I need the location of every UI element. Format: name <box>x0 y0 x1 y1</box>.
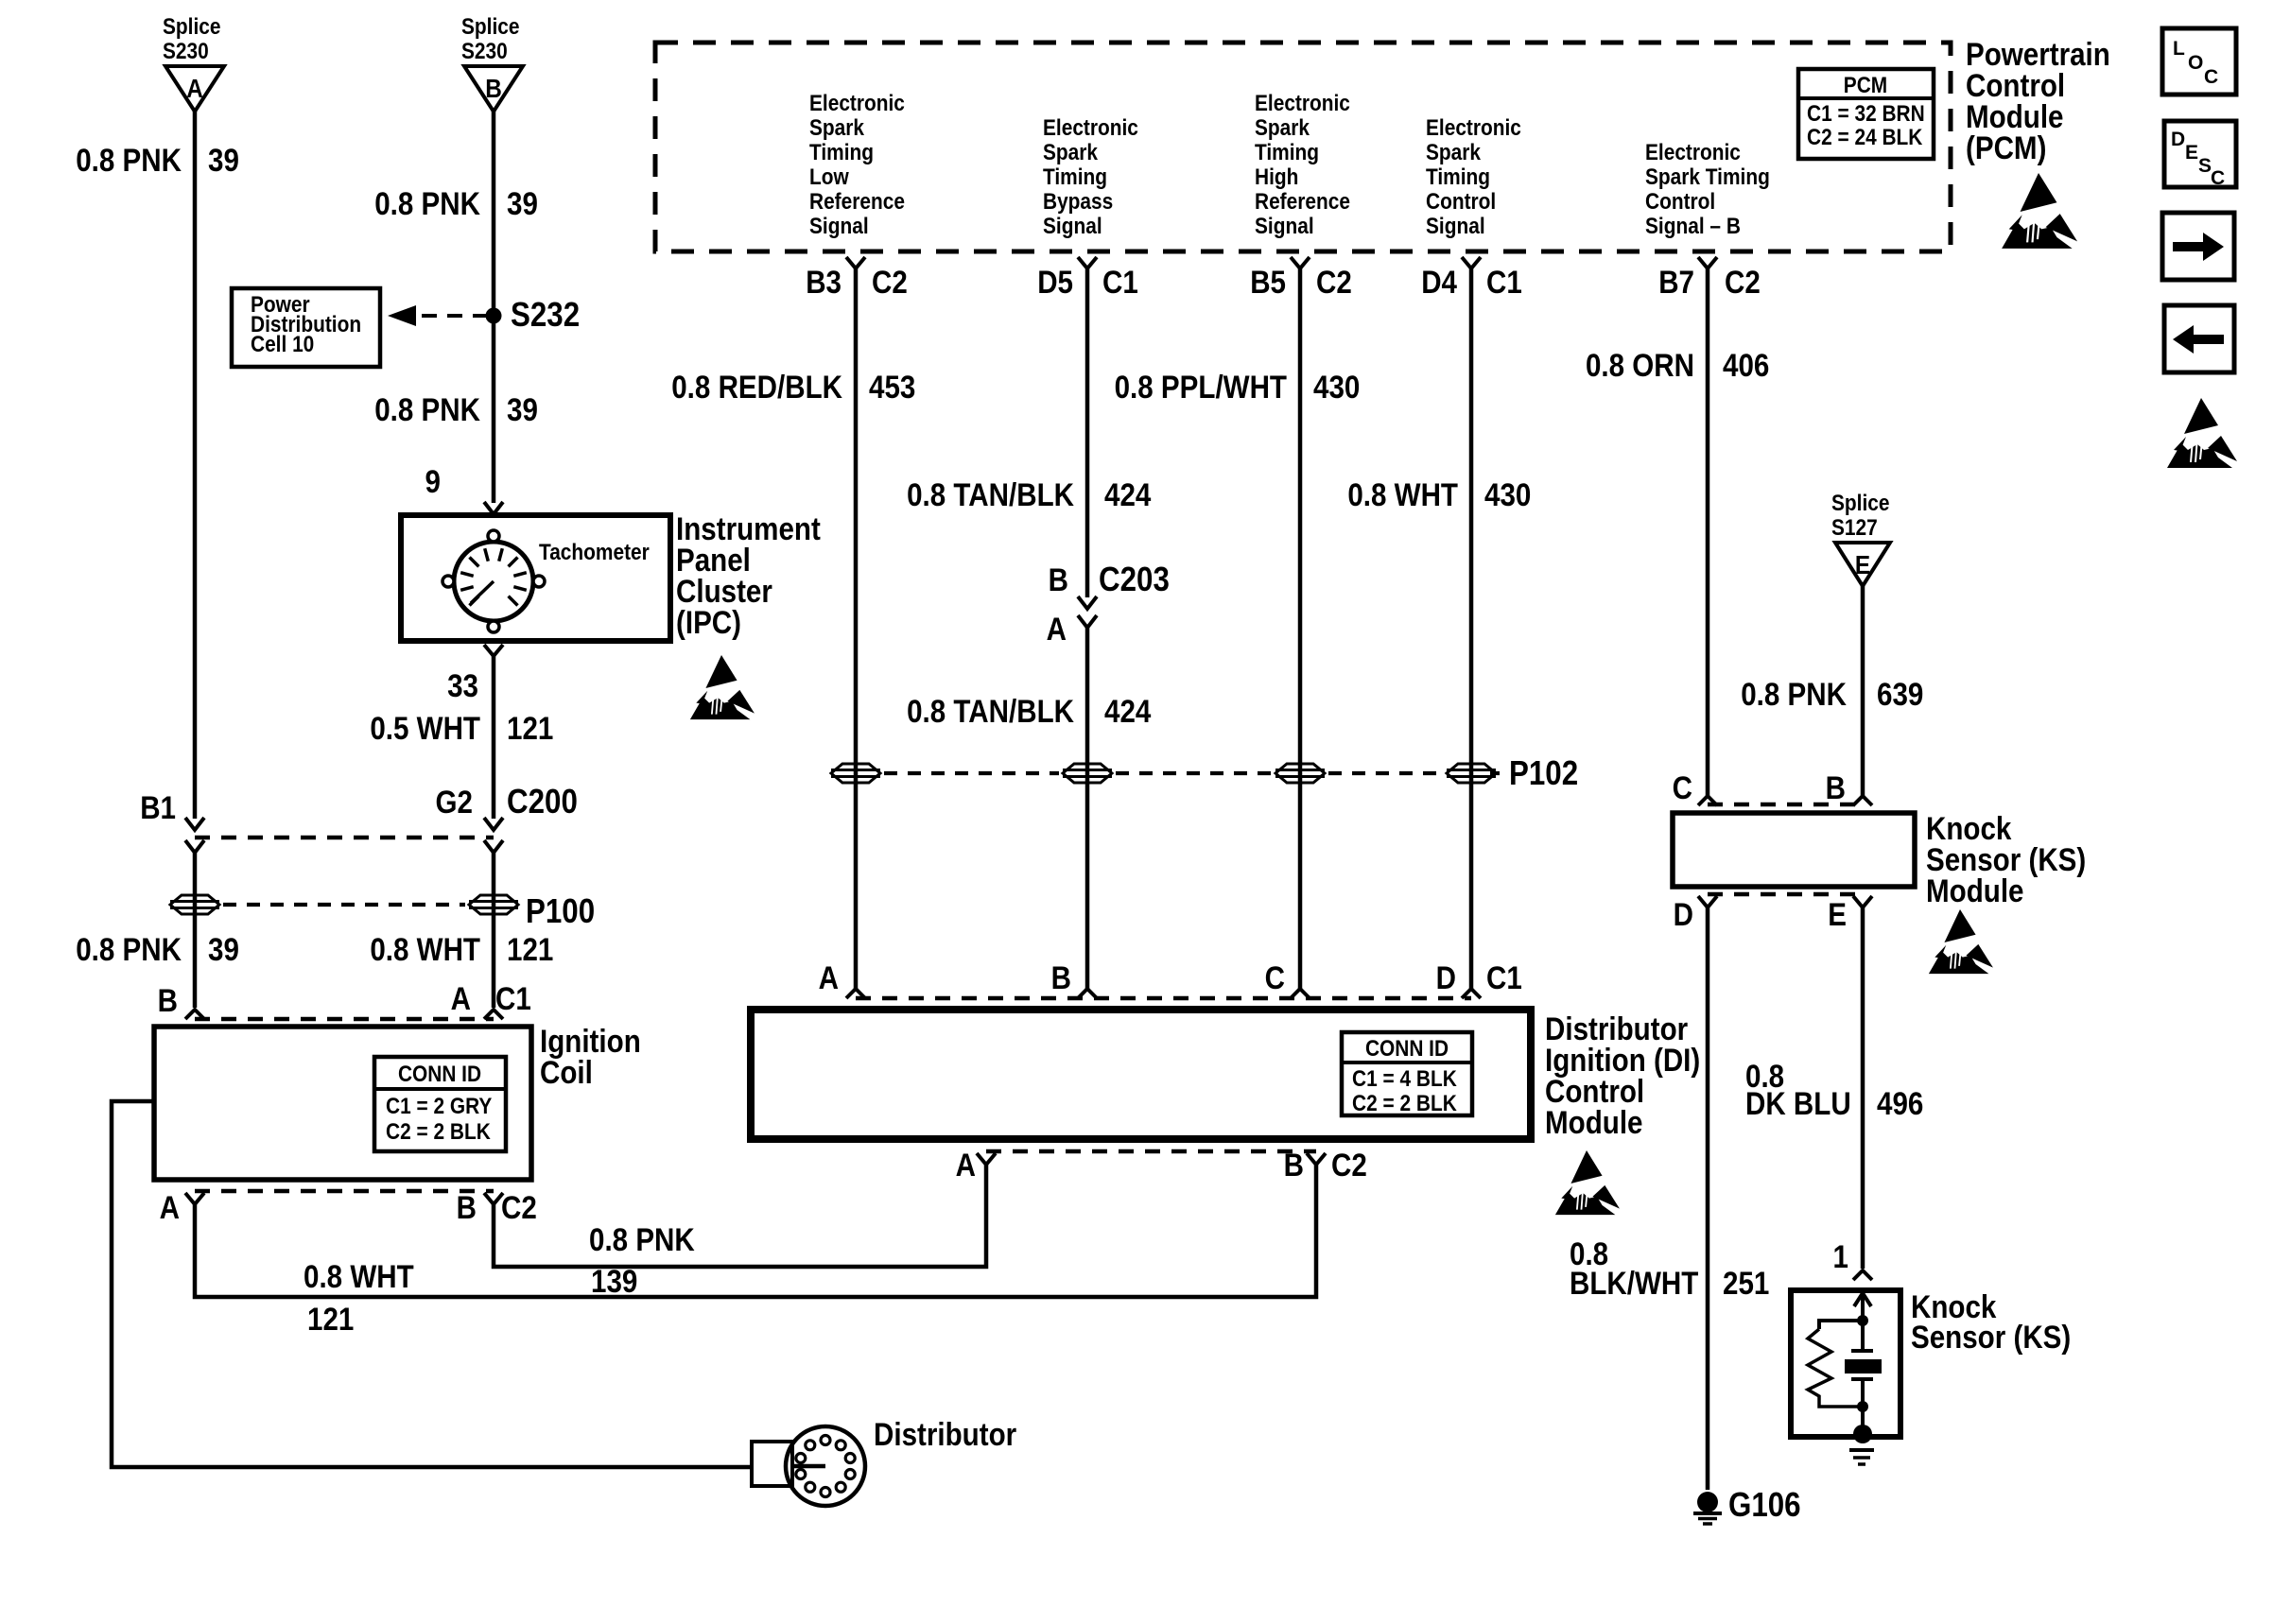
svg-text:PCM: PCM <box>1844 73 1887 98</box>
svg-text:0.8 PNK: 0.8 PNK <box>374 391 480 427</box>
KS module connector bottom dashed line <box>1708 892 1863 897</box>
svg-text:E: E <box>2185 142 2198 164</box>
svg-text:Control: Control <box>1426 189 1496 215</box>
svg-text:A: A <box>160 1189 180 1225</box>
pass-through connector P100 (right) <box>469 895 518 914</box>
svg-text:639: 639 <box>1877 676 1923 712</box>
svg-text:496: 496 <box>1877 1085 1923 1121</box>
previous-page arrow box <box>2164 305 2234 372</box>
svg-text:Distributor: Distributor <box>874 1416 1016 1452</box>
svg-text:39: 39 <box>208 931 239 967</box>
wire 0.8 DK BLU 496 to knock sensor <box>1861 907 1865 1269</box>
svg-text:Reference: Reference <box>809 189 905 215</box>
svg-text:C1: C1 <box>1102 264 1138 300</box>
pass-through connector P102 on wire D <box>1447 764 1496 783</box>
svg-text:0.5 WHT: 0.5 WHT <box>370 710 480 746</box>
svg-text:S232: S232 <box>511 296 580 335</box>
wire 0.8 WHT 121 below C200 <box>492 853 496 1008</box>
svg-text:C1 = 32 BRN: C1 = 32 BRN <box>1807 101 1925 127</box>
svg-text:Spark: Spark <box>1043 140 1098 165</box>
wire feet into coil connector C1 <box>185 1010 204 1019</box>
svg-text:0.8 PNK: 0.8 PNK <box>1741 676 1847 712</box>
wire 0.8 TAN/BLK 424 (EST bypass) upper <box>1085 268 1090 597</box>
svg-text:C2: C2 <box>501 1189 537 1225</box>
tachometer gauge symbol <box>454 542 533 621</box>
svg-text:Timing: Timing <box>1255 140 1319 165</box>
svg-text:Spark: Spark <box>1426 140 1481 165</box>
IPC pin 33 stub <box>484 645 503 656</box>
DESC reference box <box>2164 121 2236 187</box>
svg-text:424: 424 <box>1104 693 1152 729</box>
svg-text:Splice: Splice <box>461 14 519 40</box>
svg-text:0.8 WHT: 0.8 WHT <box>370 931 480 967</box>
svg-text:P102: P102 <box>1509 754 1578 793</box>
svg-text:1: 1 <box>1833 1238 1848 1274</box>
svg-text:Splice: Splice <box>1831 491 1889 516</box>
svg-text:Coil: Coil <box>540 1054 593 1090</box>
svg-text:430: 430 <box>1484 476 1531 512</box>
svg-text:Tachometer: Tachometer <box>539 540 650 565</box>
svg-text:39: 39 <box>507 391 538 427</box>
svg-text:453: 453 <box>869 369 915 405</box>
arrowhead into IPC pin 9 <box>484 502 503 514</box>
pass-through connector P100 (left) <box>170 895 219 914</box>
KS module connector top dashed line <box>1708 803 1863 807</box>
secondary wire from coil to distributor <box>112 1101 752 1467</box>
svg-text:0.8 TAN/BLK: 0.8 TAN/BLK <box>907 476 1074 512</box>
DI module CONN ID table <box>1342 1032 1472 1115</box>
splice S127 branch E triangle <box>1835 543 1890 586</box>
svg-text:D: D <box>1436 959 1456 995</box>
svg-text:S127: S127 <box>1831 515 1878 541</box>
svg-text:S230: S230 <box>163 39 209 64</box>
ESD sensitivity symbol near DI module <box>1555 1150 1620 1215</box>
svg-text:Electronic: Electronic <box>1645 140 1741 165</box>
svg-text:Module: Module <box>1545 1104 1642 1140</box>
wire 0.8 PNK 139 coil B to DI module A <box>494 1165 986 1267</box>
pass-through connector P102 on wire C <box>1275 764 1325 783</box>
svg-text:33: 33 <box>447 667 478 703</box>
splice point S232 dot <box>486 308 502 324</box>
svg-text:B: B <box>158 982 178 1018</box>
svg-text:B: B <box>1284 1147 1304 1183</box>
splice S230 branch A triangle <box>165 66 224 112</box>
PCM pin stubs leaving module <box>846 257 865 268</box>
ESD sensitivity symbol near KS module <box>1929 909 1993 974</box>
PCM module dashed outline <box>655 43 1951 251</box>
pass-through connector P102 on wire A <box>831 764 880 783</box>
svg-text:0.8 PNK: 0.8 PNK <box>76 142 182 178</box>
svg-text:C2 = 2 BLK: C2 = 2 BLK <box>386 1119 491 1145</box>
svg-text:Cell 10: Cell 10 <box>251 332 314 357</box>
svg-text:Sensor (KS): Sensor (KS) <box>1911 1319 2071 1355</box>
svg-text:0.8 PNK: 0.8 PNK <box>374 185 480 221</box>
arrowheads into connector C200 <box>185 818 204 830</box>
wire 0.8 PNK 639 splice E to KS module B <box>1861 586 1865 796</box>
Distributor Ignition Control Module box <box>751 1010 1531 1139</box>
svg-text:E: E <box>1828 896 1847 932</box>
svg-text:C: C <box>1265 959 1285 995</box>
svg-text:Reference: Reference <box>1255 189 1350 215</box>
svg-text:B3: B3 <box>806 264 842 300</box>
next-page arrow box <box>2162 213 2234 280</box>
svg-text:139: 139 <box>591 1263 637 1299</box>
svg-text:Electronic: Electronic <box>1255 91 1350 116</box>
svg-text:C2: C2 <box>1316 264 1352 300</box>
svg-text:Signal: Signal <box>1426 214 1485 239</box>
wire 0.8 BLK/WHT 251 to ground G106 <box>1706 907 1710 1490</box>
svg-text:Spark Timing: Spark Timing <box>1645 164 1770 190</box>
wire 0.8 WHT 121 coil A to DI module B <box>195 1165 1316 1297</box>
svg-text:A: A <box>819 959 839 995</box>
ignition coil connector C1 dashed line <box>195 1017 494 1022</box>
svg-text:C: C <box>1673 769 1692 805</box>
svg-text:C2 = 24 BLK: C2 = 24 BLK <box>1807 125 1923 150</box>
wire 0.8 PNK 39 below C200 <box>193 853 198 1008</box>
svg-text:0.8 TAN/BLK: 0.8 TAN/BLK <box>907 693 1074 729</box>
svg-text:Signal: Signal <box>1043 214 1102 239</box>
Knock Sensor Module box <box>1673 813 1915 887</box>
svg-text:S230: S230 <box>461 39 508 64</box>
svg-text:Signal: Signal <box>809 214 869 239</box>
legs below DI connector C2 <box>977 1153 996 1165</box>
ESD sensitivity symbol near PCM <box>2002 173 2077 249</box>
svg-text:B: B <box>485 73 502 103</box>
svg-text:B7: B7 <box>1658 264 1694 300</box>
wire 0.8 RED/BLK 453 (EST low reference) <box>854 268 859 989</box>
ESD sensitivity symbol right column <box>2167 398 2237 468</box>
svg-text:A: A <box>1047 611 1067 647</box>
svg-text:0.8 PNK: 0.8 PNK <box>589 1221 695 1257</box>
svg-text:0.8 ORN: 0.8 ORN <box>1586 347 1694 383</box>
svg-text:B5: B5 <box>1250 264 1286 300</box>
ignition coil connector C2 dashed line <box>195 1189 494 1194</box>
wire 0.8 WHT 430 (EST control) <box>1469 268 1474 989</box>
Ignition Coil box <box>154 1027 531 1180</box>
wire 0.8 ORN 406 PCM B7 to KS module C <box>1706 268 1710 796</box>
svg-text:B1: B1 <box>140 789 176 825</box>
svg-text:121: 121 <box>307 1301 354 1337</box>
svg-text:CONN ID: CONN ID <box>1365 1036 1449 1062</box>
svg-text:39: 39 <box>507 185 538 221</box>
pass-through connector P102 on wire B <box>1063 764 1112 783</box>
svg-text:A: A <box>451 980 471 1016</box>
svg-text:Timing: Timing <box>1426 164 1490 190</box>
svg-text:121: 121 <box>507 931 553 967</box>
svg-text:Control: Control <box>1645 189 1715 215</box>
svg-text:B: B <box>1051 959 1071 995</box>
svg-text:C2: C2 <box>1331 1147 1367 1183</box>
ground G106 symbol <box>1697 1492 1718 1512</box>
svg-text:DK BLU: DK BLU <box>1745 1085 1851 1121</box>
svg-text:BLK/WHT: BLK/WHT <box>1570 1265 1699 1301</box>
svg-text:C: C <box>2211 167 2225 189</box>
svg-text:C2 = 2 BLK: C2 = 2 BLK <box>1352 1091 1457 1116</box>
svg-text:Electronic: Electronic <box>1426 115 1521 141</box>
arrowhead into C203 <box>1078 596 1097 609</box>
svg-text:121: 121 <box>507 710 553 746</box>
svg-text:Timing: Timing <box>1043 164 1107 190</box>
svg-text:P100: P100 <box>526 892 595 931</box>
svg-text:B: B <box>1049 561 1068 597</box>
P100 dashed link line <box>223 903 465 907</box>
Instrument Panel Cluster (IPC) box <box>401 515 670 641</box>
svg-text:C1: C1 <box>1486 264 1522 300</box>
svg-text:E: E <box>1855 549 1870 579</box>
svg-text:C200: C200 <box>507 783 578 821</box>
internal piezo capacitor <box>1851 1349 1873 1353</box>
svg-text:G2: G2 <box>436 784 473 820</box>
svg-text:O: O <box>2188 52 2203 74</box>
svg-text:D4: D4 <box>1421 264 1457 300</box>
svg-text:(IPC): (IPC) <box>676 604 741 640</box>
svg-text:424: 424 <box>1104 476 1152 512</box>
svg-text:D: D <box>1674 896 1693 932</box>
Knock Sensor (KS) box <box>1791 1290 1900 1437</box>
wire feet into DI module connector C1 <box>846 989 865 998</box>
internal resistor branch <box>1819 1321 1863 1329</box>
wire 0.8 TAN/BLK 424 below C203 <box>1085 628 1090 989</box>
internal junction dot top <box>1857 1315 1868 1326</box>
svg-text:D: D <box>2171 129 2185 150</box>
dashed reference arrow to Power Distribution cell <box>388 305 416 326</box>
svg-text:C1: C1 <box>495 980 531 1016</box>
knock sensor case ground <box>1861 1407 1865 1427</box>
wire 0.8 PNK 39 from splice B to IPC <box>492 112 496 503</box>
wire feet into KS module connector <box>1698 796 1717 805</box>
svg-text:9: 9 <box>425 463 441 499</box>
wire 0.8 PPL/WHT 430 (EST high reference) <box>1298 268 1303 989</box>
svg-text:C1: C1 <box>1486 959 1522 995</box>
svg-text:Bypass: Bypass <box>1043 189 1113 215</box>
svg-text:A: A <box>186 73 203 103</box>
svg-text:Electronic: Electronic <box>1043 115 1138 141</box>
svg-text:0.8 PPL/WHT: 0.8 PPL/WHT <box>1115 369 1288 405</box>
legs below KS module <box>1698 896 1717 907</box>
svg-text:406: 406 <box>1723 347 1769 383</box>
svg-text:A: A <box>956 1147 976 1183</box>
svg-text:L: L <box>2173 38 2185 60</box>
svg-text:430: 430 <box>1313 369 1360 405</box>
legs below coil connector C2 <box>185 1193 204 1204</box>
Power Distribution Cell 10 reference box <box>232 288 380 367</box>
P102 dashed link line <box>884 771 1059 775</box>
svg-text:Spark: Spark <box>1255 115 1310 141</box>
svg-text:39: 39 <box>208 142 239 178</box>
chevrons below connector C200 <box>185 840 204 853</box>
svg-text:0.8 RED/BLK: 0.8 RED/BLK <box>671 369 842 405</box>
connector C200 dashed line <box>195 836 494 840</box>
svg-text:C1 = 4 BLK: C1 = 4 BLK <box>1352 1066 1457 1092</box>
ESD sensitivity symbol near IPC <box>690 655 755 719</box>
svg-text:C2: C2 <box>872 264 908 300</box>
wire 0.8 PNK 39 from splice A down to ignition coil <box>193 112 198 819</box>
svg-text:B: B <box>457 1189 477 1225</box>
svg-text:Splice: Splice <box>163 14 220 40</box>
svg-text:Electronic: Electronic <box>809 91 905 116</box>
PCM connector-ID table <box>1798 69 1934 159</box>
chevron below C203 <box>1078 615 1097 628</box>
knock sensor internal wire with up arrow <box>1861 1290 1865 1351</box>
Distributor symbol <box>752 1442 792 1486</box>
ignition coil CONN ID table <box>374 1057 506 1151</box>
svg-text:D5: D5 <box>1037 264 1073 300</box>
svg-text:Low: Low <box>809 164 849 190</box>
wire foot into knock sensor pin 1 <box>1853 1270 1872 1280</box>
svg-text:(PCM): (PCM) <box>1966 130 2046 165</box>
internal junction dot bottom <box>1857 1401 1868 1412</box>
svg-text:251: 251 <box>1723 1265 1769 1301</box>
svg-text:0.8 PNK: 0.8 PNK <box>76 931 182 967</box>
svg-text:Timing: Timing <box>809 140 874 165</box>
svg-text:CONN ID: CONN ID <box>398 1062 481 1087</box>
DI module connector C2 dashed line <box>986 1149 1316 1154</box>
svg-text:C: C <box>2204 66 2218 88</box>
svg-text:Signal: Signal <box>1255 214 1314 239</box>
splice S230 branch B triangle <box>464 66 523 112</box>
svg-text:G106: G106 <box>1728 1486 1801 1525</box>
svg-text:Module: Module <box>1926 872 2023 908</box>
svg-text:Signal – B: Signal – B <box>1645 214 1741 239</box>
LOC reference box <box>2162 28 2236 95</box>
svg-text:C1 = 2 GRY: C1 = 2 GRY <box>386 1094 492 1119</box>
DI module connector C1 dashed line <box>856 996 1471 1001</box>
svg-text:High: High <box>1255 164 1298 190</box>
svg-text:B: B <box>1826 769 1846 805</box>
svg-text:0.8 WHT: 0.8 WHT <box>304 1258 414 1294</box>
svg-text:Spark: Spark <box>809 115 864 141</box>
svg-text:0.8 WHT: 0.8 WHT <box>1347 476 1458 512</box>
svg-text:C203: C203 <box>1099 561 1170 599</box>
svg-text:C2: C2 <box>1725 264 1761 300</box>
svg-text:S: S <box>2198 155 2212 177</box>
